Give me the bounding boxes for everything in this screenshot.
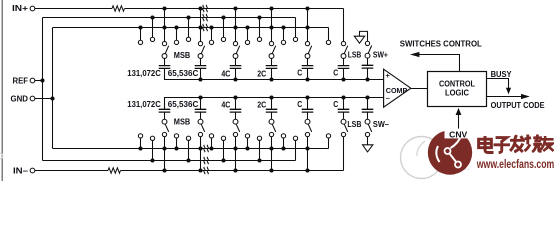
junction cell4 GND throw (top) bbox=[245, 25, 249, 29]
junction cell6 cap at bus (top) bbox=[341, 77, 345, 81]
wire cell2 GND throw drop (bottom) bbox=[176, 138, 178, 148]
wire cap to bus cell3 (bottom) bbox=[235, 98, 237, 110]
junction cell1 IN+ drop at GND rail (top) bbox=[162, 25, 166, 29]
wire SW- cap to pole bbox=[367, 112, 369, 119]
label CNV bbox=[449, 131, 468, 140]
label MSB (top) bbox=[174, 51, 191, 60]
capacitor C (bottom) bbox=[338, 109, 350, 112]
switch lever cell2 (bottom) bbox=[201, 124, 204, 132]
junction cell5 cap at bus (top) bbox=[305, 77, 309, 81]
switch pole SW+ bbox=[365, 53, 370, 58]
capacitor 131,072C (bottom) bbox=[159, 109, 171, 112]
value C cell6 (bottom) bbox=[333, 100, 338, 109]
wire cell6 IN+ throw drop (top) bbox=[343, 9, 345, 42]
wire cap to bus cell6 (bottom) bbox=[343, 98, 345, 110]
svg-text:C: C bbox=[297, 100, 302, 109]
wire pole to cap cell4 (top) bbox=[271, 58, 273, 65]
wire BUSY bbox=[487, 79, 509, 89]
wire cell1 GND throw drop (bottom) bbox=[140, 138, 142, 148]
wire pole to cap cell1 (bottom) bbox=[164, 112, 166, 119]
junction cell3 cap at bus (bottom) bbox=[233, 95, 237, 99]
wire cell1 GND throw drop (top) bbox=[140, 28, 142, 41]
wire GND bus vertical bbox=[52, 28, 54, 149]
wire cell2 REF throw drop (bottom) bbox=[188, 140, 190, 160]
input common symbol (bottom, open triangle) bbox=[363, 145, 373, 152]
wire cap to bus cell2 (bottom) bbox=[200, 98, 202, 110]
switch lever SW- bbox=[368, 124, 371, 132]
wire cell6 IN- throw drop (bottom) bbox=[343, 137, 345, 171]
junction cell4 GND throw (bottom) bbox=[245, 146, 249, 150]
value 65,536C (bottom) bbox=[168, 100, 199, 109]
capacitor C (SW+ branch) bbox=[362, 65, 374, 68]
capacitor 4C (bottom) bbox=[230, 109, 242, 112]
contact cell4 REF (top) bbox=[257, 37, 261, 41]
contact cell2 REF (bottom) bbox=[186, 136, 190, 140]
svg-text:LSB: LSB bbox=[348, 50, 362, 59]
value 4C (top) bbox=[221, 70, 230, 79]
wire cap to bus cell3 (top) bbox=[235, 68, 237, 79]
switch lever cell5 (bottom) bbox=[308, 124, 311, 132]
wire cell1 IN+ throw drop (top) bbox=[164, 9, 166, 42]
label LOGIC bbox=[445, 89, 469, 98]
wire OUTPUT CODE bbox=[487, 96, 523, 98]
switch pole cell3 (bottom) bbox=[233, 119, 238, 124]
control logic block U1 bbox=[428, 72, 487, 107]
contact cell5 IN+ (top) bbox=[305, 41, 309, 45]
label GND bbox=[11, 94, 29, 103]
value 65,536C (top) bbox=[168, 69, 199, 78]
junction cell2 IN- throw (bottom) bbox=[198, 168, 202, 172]
wire pole to cap cell5 (top) bbox=[307, 58, 309, 65]
wire cell4 IN+ throw drop (top) bbox=[271, 9, 273, 42]
svg-text:MSB: MSB bbox=[174, 51, 191, 60]
capacitor 131,072C (top) bbox=[159, 66, 171, 69]
contact cell4 GND (top) bbox=[245, 40, 249, 44]
svg-text:CONTROL: CONTROL bbox=[439, 79, 475, 88]
junction cell3 GND throw (top) bbox=[209, 25, 213, 29]
contact cell3 REF (top) bbox=[221, 37, 225, 41]
label SW+ bbox=[373, 50, 388, 59]
switch lever cell6 (top) bbox=[344, 46, 347, 54]
junction cell3 GND throw (bottom) bbox=[209, 146, 213, 150]
capacitor C (SW- branch) bbox=[362, 109, 374, 112]
arrowhead switches control bbox=[410, 52, 419, 57]
switch pole cell1 (top) bbox=[162, 54, 167, 59]
wire pole to cap cell6 (bottom) bbox=[343, 112, 345, 119]
wire SW+ cap to bus bbox=[367, 68, 369, 79]
junction cell5 GND throw (bottom) bbox=[281, 146, 285, 150]
svg-text:LOGIC: LOGIC bbox=[445, 89, 469, 98]
wire cell6 GND throw drop (top) bbox=[328, 28, 330, 41]
junction cell2 REF throw (top) bbox=[186, 15, 190, 19]
terminal GND bbox=[30, 96, 35, 101]
contact cell1 IN- (bottom) bbox=[162, 132, 166, 136]
watermark light embossed circle bbox=[0, 137, 442, 179]
op-amp comparator COMP bbox=[384, 69, 411, 107]
switch lever SW+ bbox=[368, 46, 371, 54]
wire cap to bus cell1 (bottom) bbox=[164, 98, 166, 110]
wire IN+ rail bbox=[125, 8, 344, 10]
value 131,072C (bottom) bbox=[127, 100, 161, 109]
junction cell5 cap at bus (bottom) bbox=[305, 95, 309, 99]
label OUTPUT CODE bbox=[491, 101, 546, 110]
contact cell3 IN+ (top) bbox=[233, 41, 237, 45]
wire cell6 GND throw drop (bottom) bbox=[328, 138, 330, 148]
contact cell1 GND (top) bbox=[138, 40, 142, 44]
wire cell4 REF throw drop (top) bbox=[259, 18, 261, 38]
wire cell5 GND throw drop (bottom) bbox=[283, 138, 285, 148]
wire REF bus top corner bbox=[41, 17, 43, 19]
wire cap to bus cell1 (top) bbox=[164, 68, 166, 79]
label BUSY bbox=[491, 70, 513, 79]
contact cell1 REF (bottom) bbox=[150, 136, 154, 140]
label LSB (bottom) bbox=[347, 120, 361, 129]
contact cell6 GND (bottom) bbox=[326, 134, 330, 138]
contact SW- throw bbox=[365, 132, 369, 136]
wire pole to cap cell2 (top) bbox=[200, 58, 202, 65]
wire cap to bus cell6 (top) bbox=[343, 68, 345, 79]
svg-text:LSB: LSB bbox=[347, 120, 361, 129]
wire DAC+ bus bbox=[165, 68, 384, 79]
wire cap to bus cell4 (top) bbox=[271, 68, 273, 79]
wire cell1 REF throw drop (top) bbox=[152, 18, 154, 38]
wire cap to bus cell5 (bottom) bbox=[307, 98, 309, 110]
junction cell3 IN- throw (bottom) bbox=[233, 168, 237, 172]
wire cell5 REF throw drop (bottom) bbox=[295, 140, 297, 160]
svg-text:+: + bbox=[386, 71, 391, 80]
wire cell1 IN- throw drop (bottom) bbox=[164, 137, 166, 171]
junction cell5 IN- throw (bottom) bbox=[305, 168, 309, 172]
junction cell1 IN+ throw (top) bbox=[162, 6, 166, 10]
switch pole cell1 (bottom) bbox=[162, 119, 167, 124]
svg-text:GND: GND bbox=[11, 94, 29, 103]
svg-text:–: – bbox=[386, 94, 390, 103]
switch pole SW- bbox=[365, 119, 370, 124]
junction cell1 IN- drop at GND rail (bottom) bbox=[162, 146, 166, 150]
label REF bbox=[13, 76, 29, 85]
svg-text:MSB: MSB bbox=[174, 118, 191, 127]
label IN+ bbox=[12, 4, 28, 13]
junction cell4 cap at bus (bottom) bbox=[269, 95, 273, 99]
junction cell1 GND throw (top) bbox=[138, 25, 142, 29]
switch pole cell2 (bottom) bbox=[198, 119, 203, 124]
svg-text:C: C bbox=[333, 68, 338, 77]
junction cell2 GND throw (top) bbox=[174, 25, 178, 29]
wire cell5 GND throw drop (top) bbox=[283, 28, 285, 41]
junction cell3 IN- drop at GND rail (bottom) bbox=[233, 146, 237, 150]
break mark GND rail bottom bbox=[204, 145, 208, 152]
wire pole to cap cell6 (top) bbox=[343, 58, 345, 65]
value C cell5 (top) bbox=[297, 68, 302, 77]
switch pole cell4 (bottom) bbox=[269, 119, 274, 124]
wire GND rail bottom bbox=[53, 148, 329, 150]
wire DAC- bus bbox=[165, 98, 384, 110]
wire cell4 IN- throw drop (bottom) bbox=[271, 137, 273, 171]
junction cell2 cap at bus (top) bbox=[198, 77, 202, 81]
wire GND to bus bbox=[35, 98, 53, 100]
value C cell6 (top) bbox=[333, 68, 338, 77]
wire pole to cap cell4 (bottom) bbox=[271, 112, 273, 119]
wire IN+ to resistor bbox=[35, 8, 112, 10]
arrowhead CNV bbox=[456, 108, 462, 115]
label SWITCHES CONTROL bbox=[400, 39, 482, 48]
svg-text:131,072C: 131,072C bbox=[127, 100, 161, 109]
svg-text:2C: 2C bbox=[257, 101, 266, 110]
contact cell1 GND (bottom) bbox=[138, 134, 142, 138]
watermark light embossed text fragment bbox=[443, 143, 470, 173]
junction cell5 GND throw (top) bbox=[281, 25, 285, 29]
wire switches control bbox=[418, 55, 460, 72]
wire cell5 IN- throw drop (bottom) bbox=[307, 137, 309, 171]
comparator minus input bbox=[386, 94, 390, 103]
switch lever cell3 (top) bbox=[236, 46, 239, 54]
contact cell2 GND (top) bbox=[174, 40, 178, 44]
wire REF rail bottom bbox=[43, 160, 296, 162]
label IN- bbox=[13, 166, 29, 175]
wire cell3 IN- throw drop (bottom) bbox=[235, 137, 237, 171]
junction cell2 IN+ throw (top) bbox=[198, 6, 202, 10]
contact cell4 GND (bottom) bbox=[245, 134, 249, 138]
wire cap to bus cell2 (top) bbox=[200, 68, 202, 79]
switch lever cell4 (bottom) bbox=[272, 124, 275, 132]
wire cell3 REF throw drop (top) bbox=[223, 18, 225, 38]
junction SW+ at bus bbox=[365, 77, 369, 81]
value C cell5 (bottom) bbox=[297, 100, 302, 109]
svg-text:IN+: IN+ bbox=[12, 4, 28, 13]
contact cell5 IN- (bottom) bbox=[305, 132, 309, 136]
wire cell3 GND throw drop (bottom) bbox=[211, 138, 213, 148]
wire GND rail top bbox=[53, 27, 329, 29]
wire cell2 GND throw drop (top) bbox=[176, 28, 178, 41]
watermark url www.elecfans.com bbox=[476, 159, 554, 171]
junction REF bus bbox=[40, 78, 44, 82]
contact cell4 IN- (bottom) bbox=[269, 132, 273, 136]
wire cell3 GND throw drop (top) bbox=[211, 28, 213, 41]
svg-text:4C: 4C bbox=[221, 101, 230, 110]
capacitor C (bottom) bbox=[302, 109, 314, 112]
comparator plus input bbox=[386, 71, 391, 80]
svg-text:OUTPUT CODE: OUTPUT CODE bbox=[491, 101, 546, 110]
svg-text:SWITCHES CONTROL: SWITCHES CONTROL bbox=[400, 39, 482, 48]
junction cell5 IN+ throw (top) bbox=[305, 6, 309, 10]
svg-text:2C: 2C bbox=[257, 70, 266, 79]
label MSB (bottom) bbox=[174, 118, 191, 127]
junction cell2 GND throw (bottom) bbox=[174, 146, 178, 150]
svg-text:131,072C: 131,072C bbox=[127, 69, 161, 78]
switch lever cell2 (top) bbox=[201, 46, 204, 54]
break mark REF rail top bbox=[203, 14, 207, 21]
input common symbol (top, open triangle) bbox=[354, 36, 364, 43]
contact cell4 IN+ (top) bbox=[269, 41, 273, 45]
contact cell4 REF (bottom) bbox=[257, 136, 261, 140]
switch pole cell6 (top) bbox=[341, 54, 346, 59]
junction cell3 IN+ drop at GND rail (top) bbox=[233, 25, 237, 29]
switch pole cell4 (top) bbox=[269, 54, 274, 59]
junction cell4 IN+ throw (top) bbox=[269, 6, 273, 10]
switch pole cell3 (top) bbox=[233, 54, 238, 59]
svg-text:C: C bbox=[297, 68, 302, 77]
contact cell2 IN- (bottom) bbox=[198, 132, 202, 136]
contact cell3 GND (top) bbox=[209, 40, 213, 44]
contact cell6 IN+ (top) bbox=[341, 41, 345, 45]
wire REF bus vertical bbox=[42, 18, 44, 161]
contact cell2 IN+ (top) bbox=[198, 41, 202, 45]
label SW- bbox=[373, 120, 390, 129]
wire pole to cap cell3 (top) bbox=[235, 58, 237, 65]
junction cell2 cap at bus (bottom) bbox=[198, 95, 202, 99]
capacitor C (top) bbox=[338, 66, 350, 69]
wire REF to bus bbox=[35, 80, 43, 82]
capacitor 4C (top) bbox=[230, 66, 242, 69]
switch pole cell5 (bottom) bbox=[305, 119, 310, 124]
wire cell2 IN- throw drop (bottom) bbox=[200, 137, 202, 171]
watermark logo dark disc bbox=[428, 130, 472, 174]
wire pole to cap cell3 (bottom) bbox=[235, 112, 237, 119]
wire IN- rail bbox=[121, 170, 344, 172]
svg-text:REF: REF bbox=[13, 76, 29, 85]
contact cell3 GND (bottom) bbox=[209, 134, 213, 138]
junction cell3 IN+ throw (top) bbox=[233, 6, 237, 10]
break mark GND rail top bbox=[203, 24, 207, 31]
contact cell3 IN- (bottom) bbox=[233, 132, 237, 136]
capacitor 65,536C (top) bbox=[195, 66, 207, 69]
svg-text:SW–: SW– bbox=[373, 120, 390, 129]
svg-text:COMP: COMP bbox=[386, 88, 408, 95]
switch lever cell1 (top) bbox=[165, 46, 168, 54]
svg-text:www.elecfans.com: www.elecfans.com bbox=[476, 159, 554, 171]
svg-text:4C: 4C bbox=[221, 70, 230, 79]
contact cell2 GND (bottom) bbox=[174, 134, 178, 138]
contact cell2 REF (top) bbox=[186, 37, 190, 41]
junction cell1 IN- throw (bottom) bbox=[162, 168, 166, 172]
value 131,072C (top) bbox=[127, 69, 161, 78]
contact SW+ throw bbox=[365, 41, 369, 45]
contact cell1 IN+ (top) bbox=[162, 41, 166, 45]
junction cell1 REF throw (bottom) bbox=[150, 158, 154, 162]
wire cell4 GND throw drop (top) bbox=[247, 28, 249, 41]
wire SW- contact to common symbol bbox=[367, 137, 369, 145]
wire cell5 REF throw drop (top) bbox=[295, 18, 297, 38]
CNV label backing bbox=[445, 129, 471, 139]
svg-text:IN–: IN– bbox=[13, 166, 29, 175]
wire cell5 IN+ throw drop (top) bbox=[307, 9, 309, 42]
switch lever cell4 (top) bbox=[272, 46, 275, 54]
capacitor 2C (top) bbox=[266, 66, 278, 69]
arrowhead BUSY bbox=[506, 88, 511, 94]
svg-text:CNV: CNV bbox=[449, 131, 468, 140]
junction cell4 REF throw (top) bbox=[257, 15, 261, 19]
junction cell4 IN+ drop at GND rail (top) bbox=[269, 25, 273, 29]
break mark IN- rail bbox=[204, 167, 208, 174]
junction cell4 IN- throw (bottom) bbox=[269, 168, 273, 172]
svg-text:SW+: SW+ bbox=[373, 50, 388, 59]
switch lever cell5 (top) bbox=[308, 46, 311, 54]
contact cell6 IN- (bottom) bbox=[341, 132, 345, 136]
wire cell4 GND throw drop (bottom) bbox=[247, 138, 249, 148]
resistor R IN+ bbox=[112, 6, 125, 11]
label LSB (top) bbox=[348, 50, 362, 59]
wire comparator output bbox=[411, 88, 428, 90]
junction cell5 IN- drop at GND rail (bottom) bbox=[305, 146, 309, 150]
contact cell1 REF (top) bbox=[150, 37, 154, 41]
arrowhead OUTPUT CODE bbox=[521, 94, 530, 99]
junction cell2 IN+ drop at GND rail (top) bbox=[198, 25, 202, 29]
junction cell3 REF throw (bottom) bbox=[221, 158, 225, 162]
wire SW- bus to cap bbox=[367, 98, 369, 110]
wire cap to bus cell4 (bottom) bbox=[271, 98, 273, 110]
page left edge line bbox=[2, 0, 3, 181]
junction cell2 IN- drop at GND rail (bottom) bbox=[198, 146, 202, 150]
svg-text:65,536C: 65,536C bbox=[168, 69, 199, 78]
contact cell5 REF (bottom) bbox=[293, 136, 297, 140]
junction cell3 REF throw (top) bbox=[221, 15, 225, 19]
svg-text:65,536C: 65,536C bbox=[168, 100, 199, 109]
wire IN- to resistor bbox=[35, 170, 108, 172]
wire pole to cap cell2 (bottom) bbox=[200, 112, 202, 119]
watermark text dian zi fa shao you bbox=[479, 135, 554, 153]
contact cell5 REF (top) bbox=[293, 37, 297, 41]
junction cell4 REF throw (bottom) bbox=[257, 158, 261, 162]
contact cell6 GND (top) bbox=[326, 40, 330, 44]
wire SW+ pole to cap bbox=[367, 58, 369, 65]
wire common symbol jog (top) bbox=[360, 31, 368, 41]
terminal IN- bbox=[30, 168, 35, 173]
junction cell6 cap at bus (bottom) bbox=[341, 95, 345, 99]
switch lever cell6 (bottom) bbox=[344, 124, 347, 132]
terminal REF bbox=[30, 78, 35, 83]
value 2C (top) bbox=[257, 70, 266, 79]
capacitor 2C (bottom) bbox=[266, 109, 278, 112]
wire CNV bbox=[458, 114, 460, 128]
label CONTROL bbox=[439, 79, 475, 88]
wire cell3 IN+ throw drop (top) bbox=[235, 9, 237, 42]
switch lever cell1 (bottom) bbox=[165, 124, 168, 132]
capacitor 65,536C (bottom) bbox=[195, 109, 207, 112]
contact cell5 GND (bottom) bbox=[281, 134, 285, 138]
wire cap to bus cell5 (top) bbox=[307, 68, 309, 79]
junction cell1 GND throw (bottom) bbox=[138, 146, 142, 150]
junction cell1 REF throw (top) bbox=[150, 15, 154, 19]
junction cell2 REF throw (bottom) bbox=[186, 158, 190, 162]
switch pole cell2 (top) bbox=[198, 54, 203, 59]
break mark REF rail bottom bbox=[204, 157, 208, 164]
wire REF rail top bbox=[43, 17, 296, 19]
wire cell4 REF throw drop (bottom) bbox=[259, 140, 261, 160]
wire cell2 IN+ throw drop (top) bbox=[200, 9, 202, 42]
junction GND bus bbox=[50, 96, 54, 100]
switch pole cell6 (bottom) bbox=[341, 119, 346, 124]
break mark IN+ rail bbox=[203, 5, 207, 12]
resistor R IN- bbox=[108, 168, 121, 173]
contact cell3 REF (bottom) bbox=[221, 136, 225, 140]
terminal IN+ bbox=[30, 6, 35, 11]
wire cell1 REF throw drop (bottom) bbox=[152, 140, 154, 160]
junction cell4 IN- drop at GND rail (bottom) bbox=[269, 146, 273, 150]
capacitor C (top) bbox=[302, 66, 314, 69]
switch lever cell3 (bottom) bbox=[236, 124, 239, 132]
wire pole to cap cell5 (bottom) bbox=[307, 112, 309, 119]
junction SW- at bus bbox=[365, 95, 369, 99]
wire pole to cap cell1 (top) bbox=[164, 58, 166, 65]
junction cell4 cap at bus (top) bbox=[269, 77, 273, 81]
svg-text:BUSY: BUSY bbox=[491, 70, 513, 79]
junction cell3 cap at bus (top) bbox=[233, 77, 237, 81]
label COMP bbox=[386, 88, 408, 95]
switch pole cell5 (top) bbox=[305, 54, 310, 59]
svg-text:C: C bbox=[333, 100, 338, 109]
contact cell5 GND (top) bbox=[281, 40, 285, 44]
value 2C (bottom) bbox=[257, 101, 266, 110]
